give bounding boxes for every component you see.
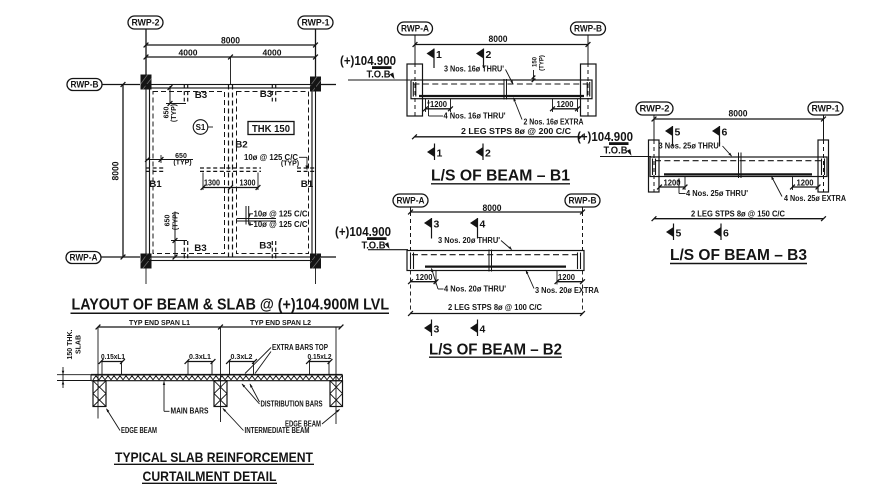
B2 dimension 1200 right: [555, 271, 585, 285]
svg-text:1300: 1300: [204, 179, 220, 188]
note 3 Nos. 20o EXTRA (B2): [525, 269, 600, 295]
slab thickness box THK 150: [248, 122, 294, 135]
svg-text:(+)104.900: (+)104.900: [577, 130, 633, 144]
svg-text:1200: 1200: [558, 273, 576, 282]
beam inner edge (solid rectangle): [150, 88, 313, 257]
svg-text:1200: 1200: [416, 273, 434, 282]
beam B2 centre beam (dashed double line): [229, 85, 233, 261]
svg-text:B1: B1: [149, 179, 162, 190]
B1 stirrup dimension line: [412, 134, 583, 139]
dimension 650 (TYP) mid-left: [145, 153, 193, 166]
note 10o @ 125 C/C (distribution bars): [249, 220, 308, 229]
section marker 5 (bottom): [666, 224, 682, 241]
grid label RWP-B (B2): [565, 194, 600, 212]
B2 grid centreline left: [410, 212, 412, 314]
svg-text:RWP-1: RWP-1: [812, 104, 840, 114]
svg-text:1: 1: [436, 49, 442, 61]
svg-text:TYP END SPAN L1: TYP END SPAN L1: [129, 320, 190, 327]
B3 grid centreline right: [823, 119, 825, 192]
B1 dimension 1200 right: [550, 99, 580, 112]
note 10o @ 125 C/C (TYP) with leader: [244, 153, 309, 171]
plan title: [71, 297, 390, 314]
dimension 650 (TYP) top-left: [163, 85, 186, 122]
edge beam left (detail): [93, 381, 106, 407]
svg-text:3 Nos. 20ø THRU': 3 Nos. 20ø THRU': [438, 236, 500, 245]
section marker 1 (bottom): [427, 144, 443, 161]
svg-text:TYP END SPAN L2: TYP END SPAN L2: [250, 320, 311, 327]
grid label RWP-A (plan left-bottom): [66, 252, 140, 264]
dimension 1300+1300 over beam B2: [201, 173, 261, 191]
svg-text:CURTAILMENT DETAIL: CURTAILMENT DETAIL: [143, 468, 277, 484]
svg-text:0.3xL2: 0.3xL2: [231, 352, 253, 361]
svg-text:0.3xL1: 0.3xL1: [189, 352, 211, 361]
svg-text:TYPICAL SLAB REINFORCEMENT: TYPICAL SLAB REINFORCEMENT: [115, 449, 313, 465]
svg-text:(TYP): (TYP): [173, 212, 180, 230]
svg-text:4: 4: [480, 324, 486, 336]
svg-text:B3: B3: [195, 90, 208, 101]
note EDGE BEAM right with leader: [285, 408, 341, 428]
B1 dimension 8000: [413, 34, 591, 47]
svg-text:8000: 8000: [483, 203, 502, 213]
column BR (plan): [310, 254, 321, 269]
note 2 LEG STPS 8o @ 100 C/C (B2): [448, 303, 542, 312]
svg-text:EDGE BEAM: EDGE BEAM: [121, 426, 157, 435]
svg-text:L/S OF BEAM – B3: L/S OF BEAM – B3: [670, 247, 807, 264]
B3 dimension 1200 left: [657, 177, 687, 191]
B1 dimension 1200 left: [423, 99, 453, 112]
B3 bottom bars (thick): [664, 173, 812, 175]
svg-text:4000: 4000: [179, 48, 198, 58]
svg-text:INTERMEDIATE BEAM: INTERMEDIATE BEAM: [245, 426, 310, 435]
svg-text:3 Nos. 20ø EXTRA: 3 Nos. 20ø EXTRA: [535, 286, 599, 295]
svg-text:RWP-2: RWP-2: [132, 18, 160, 28]
beam label B1 left: [149, 179, 162, 190]
svg-text:S1: S1: [196, 123, 206, 132]
svg-text:5: 5: [676, 228, 682, 240]
plan dimension 8000 (left, vertical): [111, 82, 126, 259]
dimension 0.3xL2: [226, 352, 257, 375]
svg-text:8000: 8000: [111, 162, 121, 181]
column centreline below BL column: [145, 269, 147, 285]
detail dimension TYP END SPAN L1 / L2: [96, 320, 344, 329]
B2 top bars (dashed): [412, 254, 579, 256]
note 4 Nos. 20o THRU (B2): [430, 267, 506, 293]
B1 bar hooks right end: [587, 82, 590, 97]
svg-text:T.O.B: T.O.B: [604, 146, 628, 157]
svg-text:1200: 1200: [557, 100, 575, 109]
title L/S OF BEAM - B1: [431, 168, 570, 185]
B3 stirrup dimension line: [652, 216, 826, 221]
note INTERMEDIATE BEAM with leader: [222, 407, 310, 435]
B3 right column: [818, 140, 829, 192]
column BL (plan): [141, 254, 152, 269]
top bars curtailment (vertical, top-right): [272, 85, 275, 102]
svg-text:6: 6: [723, 228, 729, 240]
level marker (+)104.900 T.O.B (B2 left): [335, 225, 408, 252]
svg-text:B1: B1: [301, 179, 314, 190]
B3 dimension 1200 right: [790, 177, 820, 191]
svg-text:RWP-B: RWP-B: [574, 24, 602, 34]
svg-text:1: 1: [437, 148, 443, 160]
B2 beam outline: [407, 251, 584, 271]
section marker 3 (top): [424, 218, 440, 239]
beam label B1 right: [301, 179, 314, 190]
label 150 THK. SLAB (rotated): [67, 329, 83, 359]
svg-text:MAIN BARS: MAIN BARS: [171, 407, 209, 416]
note 2 LEG STPS 8o @ 150 C/C (B3): [691, 210, 785, 219]
note EDGE BEAM left with leader: [105, 408, 157, 435]
svg-text:8000: 8000: [729, 109, 748, 119]
detail extension line left beam: [97, 327, 99, 419]
dimension 150 (TYP) slab thickness (B1): [532, 55, 546, 82]
svg-text:DISTRIBUTION BARS: DISTRIBUTION BARS: [261, 400, 323, 409]
title CURTAILMENT DETAIL: [142, 468, 277, 484]
svg-text:2: 2: [486, 49, 492, 61]
B2 midspan lap mark: [489, 250, 492, 272]
grid label RWP-1 (B3): [808, 102, 843, 119]
edge beam right (detail): [330, 381, 343, 407]
top bars curtailment (vertical, top-left): [184, 85, 187, 102]
beam label B3 top-left: [195, 90, 208, 101]
slab thickness arrows (detail): [57, 367, 91, 388]
grid label RWP-1 (plan top-right): [298, 16, 333, 77]
slab mark S1 (circle): [193, 120, 213, 135]
svg-text:2 LEG STPS 8ø @ 200 C/C: 2 LEG STPS 8ø @ 200 C/C: [461, 127, 571, 136]
svg-text:4000: 4000: [263, 48, 282, 58]
beam label B3 bottom-left: [194, 243, 207, 254]
svg-text:B2: B2: [235, 140, 248, 151]
B2 bar hooks left end: [411, 253, 414, 270]
svg-text:3: 3: [434, 324, 440, 336]
svg-text:2: 2: [485, 148, 491, 160]
note DISTRIBUTION BARS with leaders: [241, 383, 323, 409]
section marker 1 (top): [427, 49, 443, 69]
svg-text:6: 6: [722, 127, 728, 139]
svg-text:(+)104.900: (+)104.900: [335, 225, 391, 239]
B1 bottom bars (thick): [419, 95, 584, 97]
note EXTRA BARS TOP with leaders: [245, 343, 328, 374]
B2 stirrup dimension line: [408, 311, 585, 316]
svg-text:LAYOUT OF BEAM & SLAB @ (+)104: LAYOUT OF BEAM & SLAB @ (+)104.900M LVL: [72, 297, 390, 314]
level marker (+)104.900 T.O.B (B1 left): [340, 54, 410, 81]
svg-text:EXTRA BARS TOP: EXTRA BARS TOP: [272, 343, 328, 352]
grid label RWP-2 (B3): [636, 102, 673, 119]
svg-text:150 THK.: 150 THK.: [67, 329, 74, 359]
svg-text:3 Nos. 16ø THRU': 3 Nos. 16ø THRU': [444, 65, 504, 74]
slab band (detail): [91, 375, 343, 381]
note 3 Nos. 16o THRU (B1): [444, 65, 514, 86]
svg-text:THK 150: THK 150: [252, 124, 290, 135]
note 4 Nos. 25o THRU (B3): [678, 178, 748, 198]
svg-text:4: 4: [480, 219, 486, 231]
intermediate beam (detail): [214, 381, 227, 407]
svg-text:(TYP): (TYP): [171, 104, 178, 122]
B2 dimension 1200 left: [408, 271, 438, 285]
B3 bar hooks right end: [822, 159, 825, 176]
section marker 5 (top): [665, 126, 681, 147]
svg-text:RWP-2: RWP-2: [640, 104, 670, 114]
svg-text:SLAB: SLAB: [76, 335, 83, 354]
title L/S OF BEAM - B2: [429, 342, 562, 359]
svg-text:(+)104.900: (+)104.900: [340, 54, 396, 68]
svg-text:4 Nos. 16ø THRU': 4 Nos. 16ø THRU': [444, 112, 506, 121]
section marker 6 (bottom): [714, 224, 730, 241]
grid label RWP-A (B2): [393, 194, 428, 212]
B1 bar hooks left end: [413, 82, 416, 97]
grid label RWP-B (plan left-top): [67, 79, 140, 91]
column TL (plan): [141, 75, 152, 90]
slab outer edge (solid rectangle): [146, 85, 316, 261]
svg-text:4 Nos. 25ø EXTRA: 4 Nos. 25ø EXTRA: [784, 194, 846, 203]
note 3 Nos. 25o THRU (B3): [659, 142, 733, 158]
level marker (+)104.900 T.O.B (right, for B3): [577, 130, 651, 157]
svg-text:10ø @ 125 C/C: 10ø @ 125 C/C: [254, 210, 308, 219]
B3 grid centreline left: [653, 119, 655, 192]
svg-text:4 Nos. 20ø THRU': 4 Nos. 20ø THRU': [444, 285, 506, 294]
note MAIN BARS with leader: [163, 381, 209, 416]
dimension 0.15xL1: [99, 352, 125, 375]
svg-text:10ø @ 125 C/C: 10ø @ 125 C/C: [254, 220, 308, 229]
beam label B2 centre: [235, 140, 248, 151]
slab panel dashed outline (right panel): [237, 92, 309, 254]
svg-text:RWP-B: RWP-B: [569, 196, 597, 206]
svg-text:B3: B3: [259, 241, 272, 252]
svg-text:1200: 1200: [430, 100, 448, 109]
note 10o @ 125 C/C (main bars): [248, 210, 308, 219]
svg-text:8000: 8000: [221, 36, 240, 46]
svg-text:RWP-B: RWP-B: [71, 80, 99, 90]
dimension 0.3xL1: [185, 352, 216, 375]
note 4 Nos. 16o THRU (B1): [427, 100, 505, 121]
top bars curtailment (mid-height, centre over B2): [200, 168, 261, 171]
svg-text:B3: B3: [194, 243, 207, 254]
title L/S OF BEAM - B3: [670, 247, 807, 264]
detail extension line right beam: [335, 327, 337, 424]
svg-text:L/S OF BEAM – B2: L/S OF BEAM – B2: [429, 342, 562, 359]
B3 midspan lap mark: [739, 153, 742, 179]
main bars symbol (bottom-right quadrant): [237, 206, 276, 225]
svg-text:RWP-A: RWP-A: [70, 253, 98, 263]
svg-text:0.15xL1: 0.15xL1: [101, 352, 125, 361]
B2 bar hooks right end: [578, 253, 581, 270]
note 4 Nos. 25o EXTRA (B3): [770, 175, 846, 203]
svg-text:1200: 1200: [797, 178, 815, 187]
B1 grid centreline right: [587, 45, 589, 117]
section marker 4 (bottom): [470, 320, 486, 337]
B3 beam outline: [650, 157, 827, 177]
grid label RWP-A (B1): [398, 22, 433, 45]
svg-text:B3: B3: [260, 89, 273, 100]
section marker 3 (bottom): [424, 320, 440, 337]
beam label B3 top-right: [260, 89, 273, 100]
B2 dimension 8000: [408, 203, 585, 214]
note 2 LEG STPS 8o @ 200 C/C (B1): [461, 127, 571, 136]
svg-text:150: 150: [533, 56, 539, 67]
top bars curtailment (mid-height, right edge): [297, 168, 316, 171]
svg-text:1200: 1200: [664, 178, 682, 187]
svg-text:650: 650: [163, 107, 170, 119]
B1 right column: [581, 64, 597, 116]
column TR (plan): [310, 77, 321, 92]
svg-text:3 Nos. 25ø THRU': 3 Nos. 25ø THRU': [659, 142, 721, 151]
note 3 Nos. 20o THRU (B2): [438, 236, 513, 251]
grid label RWP-2 (plan top-left): [128, 16, 163, 75]
grid label RWP-B (B1): [571, 22, 606, 45]
plan dimension 8000 (top): [144, 36, 318, 48]
svg-text:RWP-A: RWP-A: [401, 24, 429, 34]
svg-text:2 Nos. 16ø EXTRA: 2 Nos. 16ø EXTRA: [524, 117, 584, 126]
B1 grid centreline left: [414, 45, 416, 117]
B1 midspan lap mark: [504, 79, 507, 100]
B3 top bars (dashed): [655, 160, 822, 162]
svg-text:1300: 1300: [240, 179, 256, 188]
svg-text:2 LEG STPS 8ø @ 150 C/C: 2 LEG STPS 8ø @ 150 C/C: [691, 210, 785, 219]
B3 left column: [649, 140, 660, 192]
section marker 4 (top): [470, 218, 486, 239]
svg-text:RWP-1: RWP-1: [302, 18, 330, 28]
svg-text:RWP-A: RWP-A: [397, 196, 425, 206]
plan dimension 4000+4000: [144, 48, 318, 85]
dimension 650 (TYP) bottom-left: [165, 212, 188, 260]
svg-text:5: 5: [675, 127, 681, 139]
svg-text:2 LEG STPS 8ø @ 100 C/C: 2 LEG STPS 8ø @ 100 C/C: [448, 303, 542, 312]
detail extension line intermediate beam: [220, 327, 222, 422]
B1 top bars (dashed): [414, 83, 590, 85]
B2 bottom bars (thick): [425, 265, 566, 267]
top bars curtailment (vertical, bottom-right): [272, 241, 275, 259]
note 2 Nos. 16o EXTRA (B1): [512, 97, 584, 126]
B3 dimension 8000: [652, 109, 826, 122]
B2 grid centreline right: [582, 212, 584, 314]
top bars curtailment (mid-height, left edge): [146, 168, 164, 171]
column centreline below BR column: [315, 269, 317, 285]
svg-text:4 Nos. 25ø THRU': 4 Nos. 25ø THRU': [686, 189, 748, 198]
B3 bar hooks left end: [653, 159, 656, 176]
top bars curtailment (vertical, bottom-left): [184, 241, 187, 259]
svg-text:L/S OF BEAM – B1: L/S OF BEAM – B1: [431, 168, 570, 185]
B1 left column: [407, 64, 423, 116]
beam label B3 bottom-right: [259, 241, 272, 252]
svg-text:(TYP): (TYP): [281, 161, 299, 168]
extension lines right of plan: [321, 85, 336, 258]
title TYPICAL SLAB REINFORCEMENT: [114, 449, 314, 465]
svg-text:3: 3: [434, 219, 440, 231]
svg-text:8000: 8000: [489, 34, 508, 44]
svg-text:650: 650: [165, 215, 172, 227]
svg-text:(TYP): (TYP): [540, 55, 546, 71]
svg-text:(TYP): (TYP): [173, 159, 191, 166]
dimension 0.15xL2: [306, 352, 332, 375]
svg-text:T.O.B: T.O.B: [367, 70, 391, 81]
section marker 2 (bottom): [476, 144, 492, 161]
B1 beam outline: [411, 80, 592, 99]
slab panel dashed outline (left panel): [153, 92, 225, 254]
section marker 2 (top): [476, 49, 492, 69]
section marker 6 (top): [712, 126, 728, 147]
